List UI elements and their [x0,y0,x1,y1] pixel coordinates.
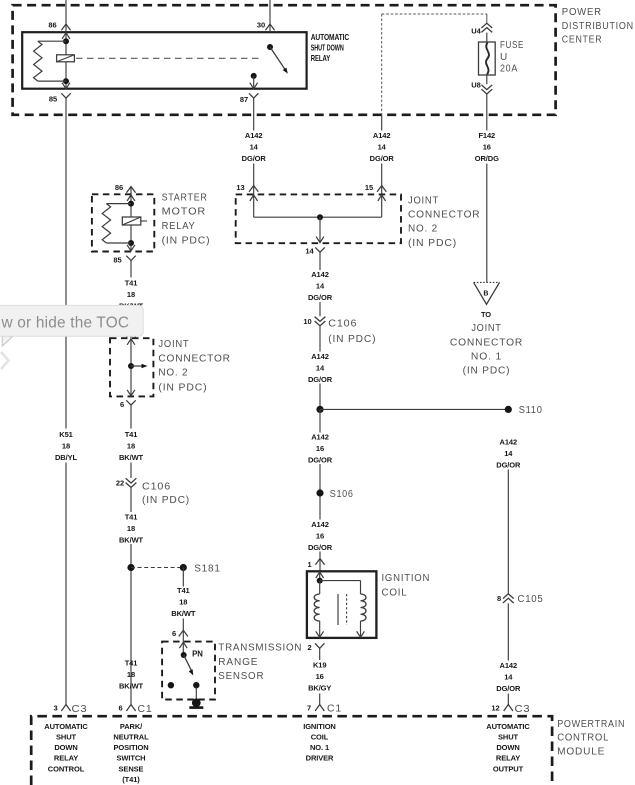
svg-text:NO. 1: NO. 1 [471,352,502,363]
svg-text:COIL: COIL [382,587,408,598]
svg-text:RANGE: RANGE [218,657,258,668]
svg-text:(IN PDC): (IN PDC) [328,334,376,345]
svg-text:14: 14 [504,673,513,682]
svg-text:AUTOMATIC: AUTOMATIC [486,722,530,731]
svg-text:C105: C105 [518,594,544,605]
svg-text:6: 6 [118,704,122,713]
svg-text:16: 16 [316,672,324,681]
svg-text:F142: F142 [478,131,495,140]
svg-text:SHUT DOWN: SHUT DOWN [311,44,344,53]
svg-text:JOINT: JOINT [408,195,439,206]
svg-text:COIL: COIL [311,733,329,742]
svg-text:CONNECTOR: CONNECTOR [158,353,230,364]
svg-text:SENSE: SENSE [119,764,144,773]
svg-text:A142: A142 [311,352,329,361]
svg-text:1: 1 [307,560,311,569]
svg-text:86: 86 [48,21,56,30]
svg-text:A142: A142 [311,433,329,442]
svg-text:18: 18 [127,670,135,679]
svg-text:T41: T41 [125,512,138,521]
svg-text:14: 14 [250,142,259,151]
svg-text:DOWN: DOWN [496,743,519,752]
svg-text:CONTROL: CONTROL [557,733,609,744]
svg-text:DG/OR: DG/OR [496,460,521,469]
svg-text:DB/YL: DB/YL [55,453,78,462]
svg-text:14: 14 [504,449,513,458]
svg-text:FUSE: FUSE [500,40,524,51]
svg-text:2: 2 [307,643,311,652]
svg-text:DOWN: DOWN [54,743,77,752]
svg-text:DG/OR: DG/OR [370,154,395,163]
svg-text:86: 86 [115,183,123,192]
svg-text:(IN PDC): (IN PDC) [142,495,190,506]
svg-text:C1: C1 [138,704,153,715]
svg-text:OR/DG: OR/DG [475,154,499,163]
svg-text:22: 22 [116,479,124,488]
svg-text:BK/WT: BK/WT [119,453,144,462]
svg-text:14: 14 [316,282,325,291]
svg-text:TO: TO [481,310,491,319]
svg-text:18: 18 [179,597,187,606]
svg-text:10: 10 [303,317,311,326]
svg-text:TRANSMISSION: TRANSMISSION [218,643,302,654]
svg-text:14: 14 [316,364,325,373]
svg-text:85: 85 [49,94,57,103]
svg-text:POWERTRAIN: POWERTRAIN [557,719,625,730]
svg-text:18: 18 [62,442,70,451]
svg-text:AUTOMATIC: AUTOMATIC [311,33,350,42]
svg-text:CONNECTOR: CONNECTOR [408,210,480,221]
svg-text:DG/OR: DG/OR [308,375,333,384]
svg-text:87: 87 [240,95,248,104]
svg-text:A142: A142 [373,131,391,140]
svg-text:DG/OR: DG/OR [308,456,333,465]
svg-text:(IN PDC): (IN PDC) [158,382,207,393]
svg-text:w or hide the TOC: w or hide the TOC [1,315,130,332]
svg-text:C106: C106 [142,481,171,492]
svg-text:NO. 2: NO. 2 [158,368,188,379]
svg-text:C3: C3 [515,704,531,715]
svg-text:A142: A142 [311,520,329,529]
svg-text:RELAY: RELAY [496,754,520,763]
svg-text:MODULE: MODULE [557,747,605,758]
svg-text:16: 16 [483,142,491,151]
svg-text:BK/WT: BK/WT [119,535,144,544]
svg-text:T41: T41 [177,586,190,595]
svg-text:MOTOR: MOTOR [162,207,207,218]
svg-text:7: 7 [307,704,311,713]
svg-text:T41: T41 [125,279,138,288]
svg-text:IGNITION: IGNITION [382,573,431,584]
svg-text:CONTROL: CONTROL [48,764,85,773]
svg-text:SWITCH: SWITCH [117,754,146,763]
svg-text:DG/OR: DG/OR [308,293,333,302]
svg-text:CENTER: CENTER [562,34,603,45]
svg-text:S110: S110 [519,405,543,416]
svg-text:85: 85 [113,255,121,264]
svg-text:(IN PDC): (IN PDC) [408,238,457,249]
svg-text:6: 6 [172,629,176,638]
svg-text:16: 16 [316,444,324,453]
svg-text:PN: PN [192,650,203,659]
svg-text:A142: A142 [245,131,263,140]
svg-text:RELAY: RELAY [162,221,196,232]
svg-text:U: U [500,52,508,63]
svg-text:CONNECTOR: CONNECTOR [450,337,523,348]
svg-text:BK/WT: BK/WT [119,682,144,691]
svg-text:A142: A142 [500,437,518,446]
svg-text:C106: C106 [328,319,357,330]
svg-text:DG/OR: DG/OR [496,684,521,693]
svg-text:B: B [483,290,488,297]
svg-text:T41: T41 [125,659,138,668]
svg-text:A142: A142 [500,661,518,670]
svg-text:18: 18 [127,524,135,533]
svg-text:SENSOR: SENSOR [218,671,264,682]
svg-text:BK/WT: BK/WT [171,609,196,618]
svg-text:DISTRIBUTION: DISTRIBUTION [562,21,634,32]
svg-text:DRIVER: DRIVER [306,754,334,763]
svg-text:NO. 2: NO. 2 [408,224,438,235]
svg-text:STARTER: STARTER [162,193,208,204]
svg-text:8: 8 [497,594,501,603]
svg-text:RELAY: RELAY [54,754,78,763]
svg-text:3: 3 [53,704,57,713]
svg-text:20A: 20A [500,64,518,75]
svg-text:DG/OR: DG/OR [242,154,267,163]
svg-text:POSITION: POSITION [113,743,148,752]
svg-text:OUTPUT: OUTPUT [493,764,524,773]
svg-text:S181: S181 [194,563,221,574]
svg-text:JOINT: JOINT [158,339,189,350]
svg-text:RELAY: RELAY [311,54,331,63]
svg-text:JOINT: JOINT [471,323,501,334]
svg-text:SHUT: SHUT [56,733,77,742]
svg-text:12: 12 [491,704,499,713]
svg-text:15: 15 [365,183,373,192]
svg-text:18: 18 [127,290,135,299]
svg-text:14: 14 [378,142,387,151]
svg-text:SHUT: SHUT [498,733,519,742]
svg-text:C1: C1 [327,704,342,715]
svg-text:A142: A142 [311,270,329,279]
svg-text:PARK/: PARK/ [120,722,143,731]
svg-text:T41: T41 [125,430,138,439]
svg-text:IGNITION: IGNITION [303,722,336,731]
svg-text:14: 14 [305,247,314,256]
svg-text:AUTOMATIC: AUTOMATIC [44,722,88,731]
svg-text:(T41): (T41) [122,775,140,784]
svg-text:(IN PDC): (IN PDC) [463,366,511,377]
svg-text:DG/OR: DG/OR [308,543,333,552]
svg-text:U8: U8 [471,81,480,90]
svg-text:U4: U4 [471,26,481,35]
svg-text:S106: S106 [330,489,354,500]
svg-text:6: 6 [120,400,124,409]
svg-text:POWER: POWER [562,7,602,18]
svg-text:18: 18 [127,442,135,451]
svg-text:30: 30 [257,21,265,30]
svg-text:BK/GY: BK/GY [308,684,331,693]
svg-text:K51: K51 [59,430,72,439]
svg-text:16: 16 [316,532,324,541]
svg-text:NEUTRAL: NEUTRAL [113,733,149,742]
svg-text:13: 13 [236,183,244,192]
svg-text:(IN PDC): (IN PDC) [162,236,211,247]
svg-text:C3: C3 [72,704,88,715]
svg-text:K19: K19 [313,661,326,670]
svg-text:NO. 1: NO. 1 [310,743,329,752]
